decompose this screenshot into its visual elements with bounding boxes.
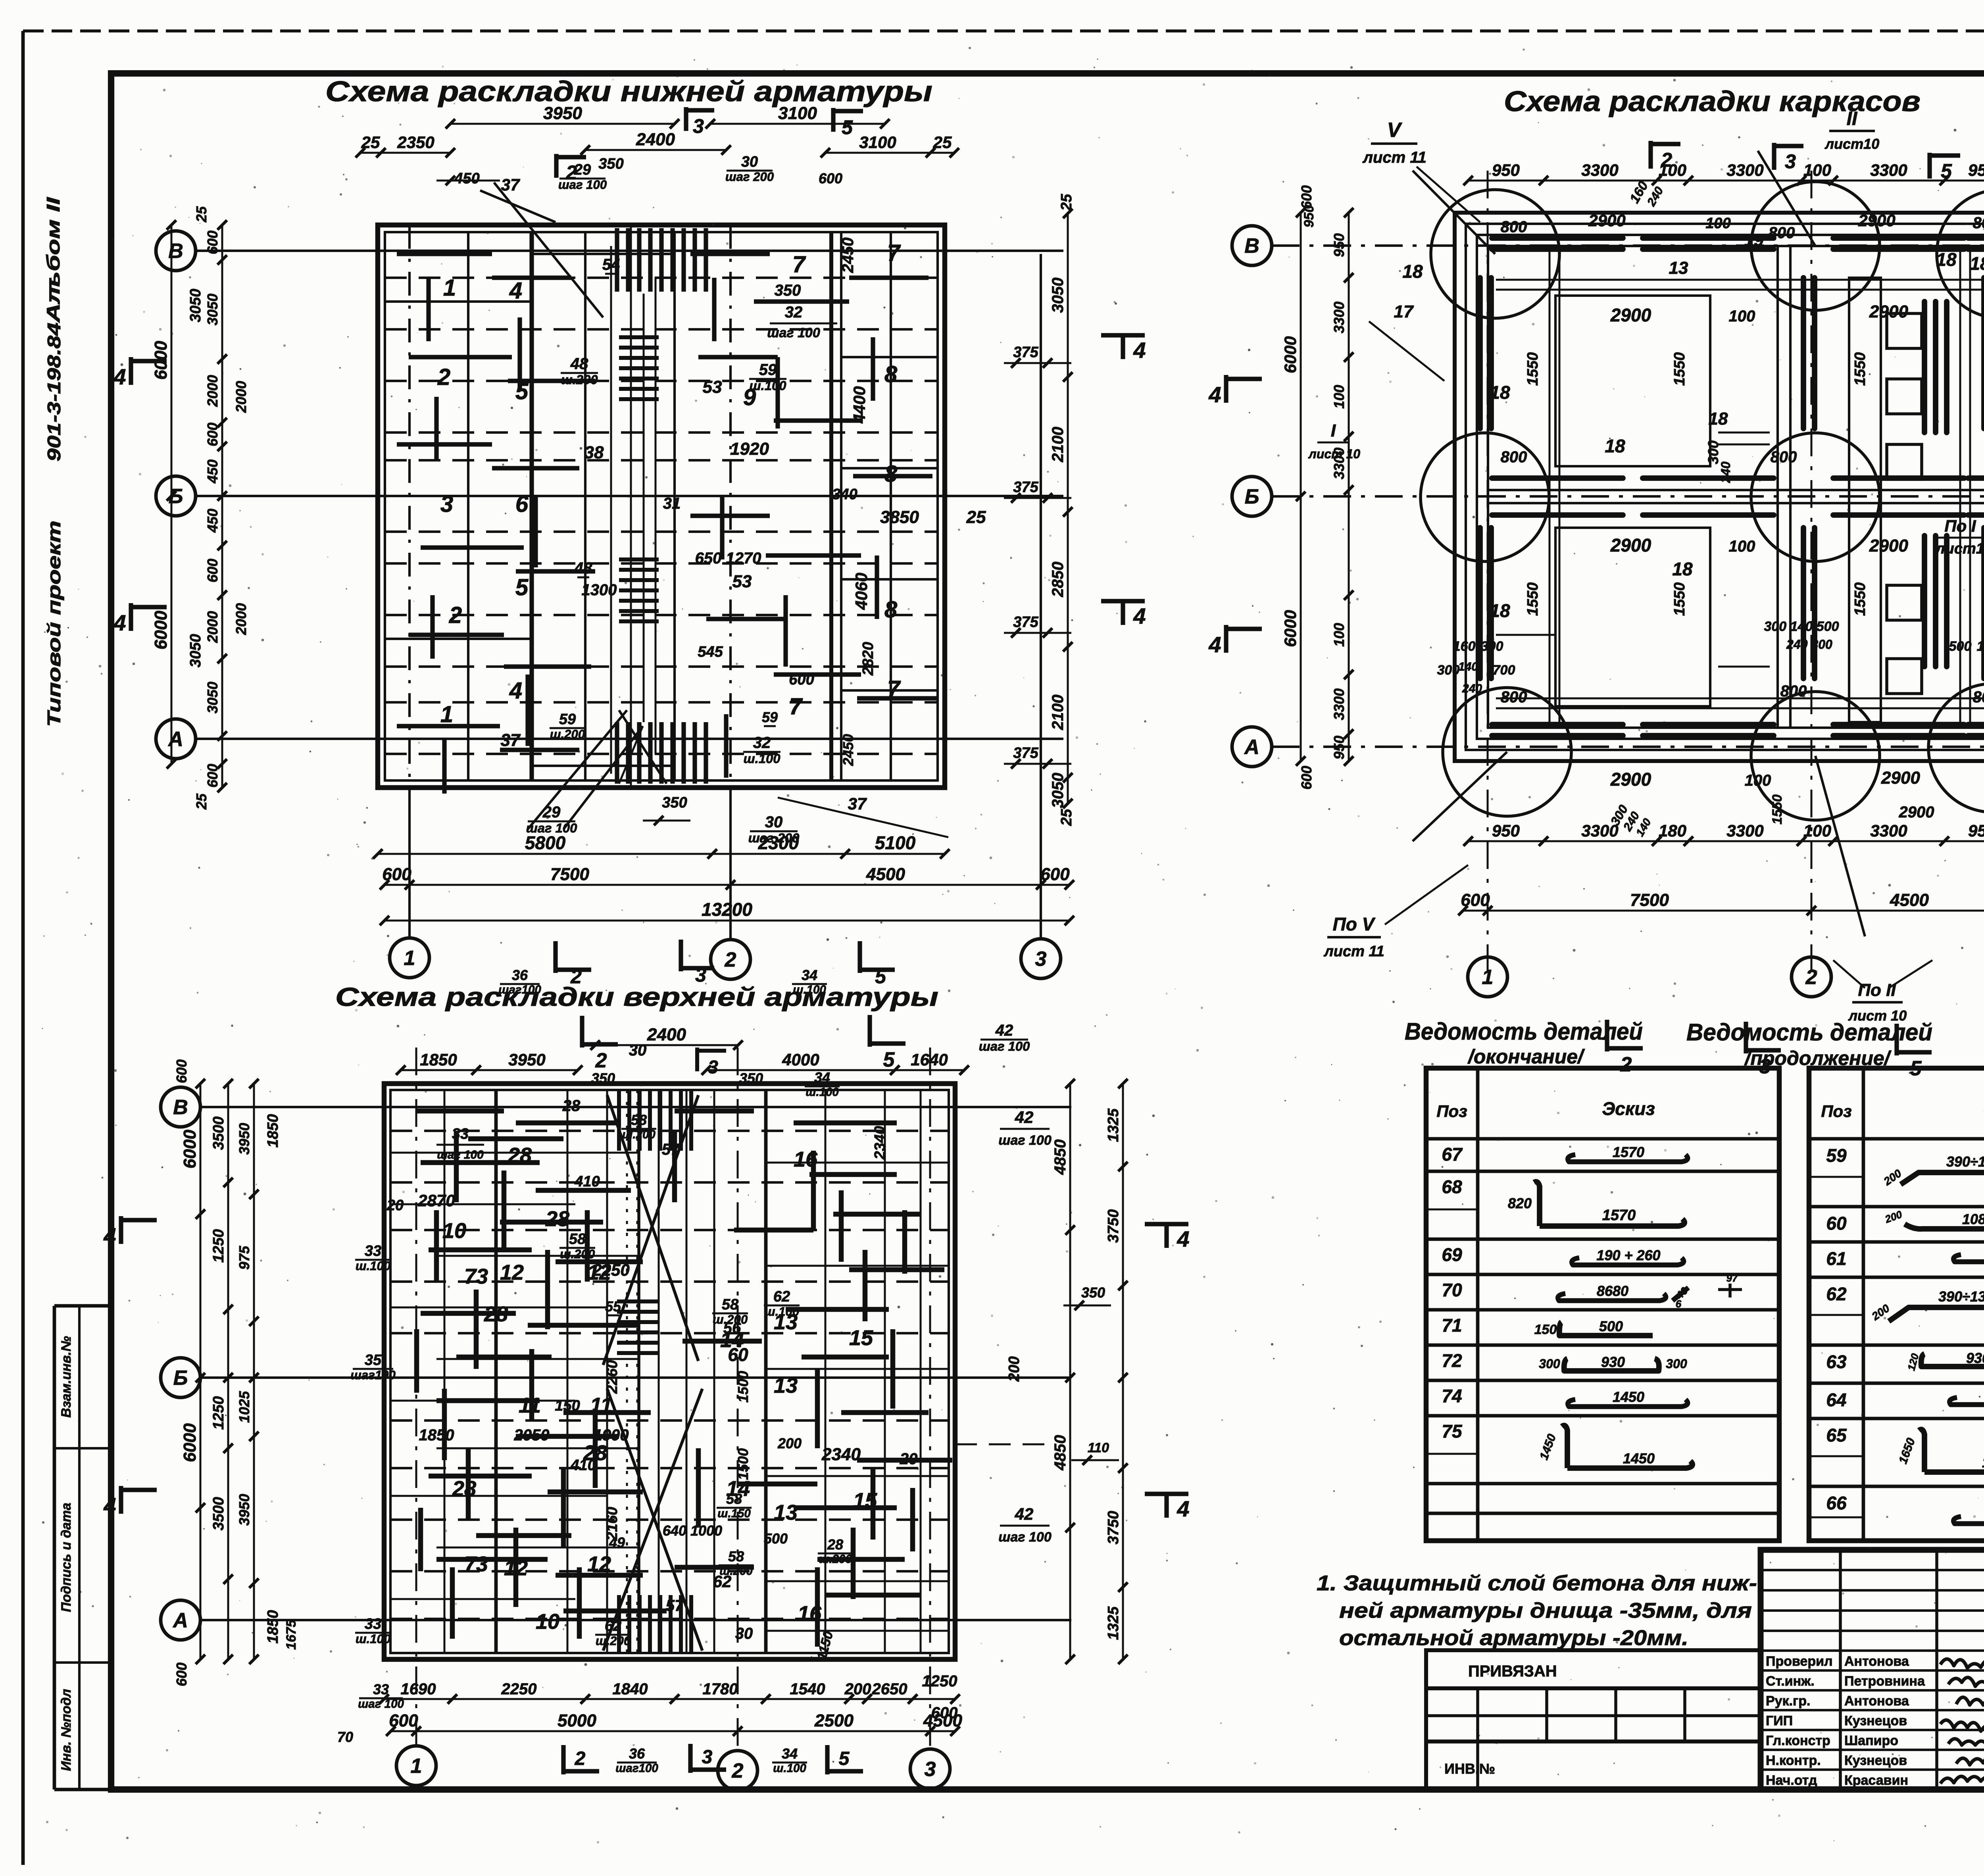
svg-text:2000: 2000	[233, 381, 249, 413]
svg-text:1450: 1450	[1623, 1450, 1655, 1467]
svg-text:600: 600	[1040, 865, 1070, 884]
svg-text:16: 16	[794, 1148, 818, 1171]
svg-text:шаг 200: шаг 200	[725, 170, 774, 184]
svg-text:2400: 2400	[636, 130, 675, 149]
svg-text:ГИП: ГИП	[1766, 1713, 1793, 1728]
svg-text:200: 200	[1006, 1356, 1023, 1382]
svg-text:шаг100: шаг100	[498, 983, 541, 996]
svg-text:2350: 2350	[397, 133, 434, 152]
svg-text:18: 18	[1709, 409, 1728, 429]
svg-text:шаг100: шаг100	[615, 1762, 658, 1775]
svg-text:2650: 2650	[872, 1680, 907, 1698]
svg-text:1900: 1900	[594, 1426, 629, 1444]
svg-text:19: 19	[1744, 231, 1764, 250]
svg-text:2500: 2500	[814, 1711, 854, 1730]
svg-text:Схема раскладки каркасов: Схема раскладки каркасов	[1504, 86, 1921, 117]
svg-text:500: 500	[1949, 639, 1972, 654]
svg-text:2260: 2260	[604, 1360, 621, 1394]
svg-text:лист 11: лист 11	[1323, 943, 1384, 960]
svg-text:58: 58	[722, 1296, 739, 1313]
svg-text:В: В	[173, 1096, 188, 1119]
svg-text:59: 59	[762, 709, 778, 725]
svg-text:ш.200: ш.200	[819, 1553, 852, 1566]
svg-text:600: 600	[204, 423, 221, 446]
svg-text:240 300: 240 300	[1786, 637, 1832, 652]
svg-text:800: 800	[1973, 688, 1984, 706]
svg-text:ней арматуры днища -35мм, для: ней арматуры днища -35мм, для	[1339, 1599, 1752, 1622]
svg-text:2450: 2450	[840, 734, 856, 766]
svg-text:1650: 1650	[1982, 1454, 1984, 1470]
svg-text:ш.100: ш.100	[356, 1632, 391, 1646]
svg-text:20: 20	[900, 1450, 918, 1468]
svg-text:1550: 1550	[1671, 582, 1688, 616]
svg-text:500: 500	[764, 1530, 788, 1547]
svg-text:375: 375	[1013, 745, 1038, 761]
svg-text:3: 3	[925, 1758, 936, 1781]
svg-text:42: 42	[1015, 1108, 1034, 1126]
svg-text:640 1000: 640 1000	[663, 1522, 722, 1539]
svg-text:По II: По II	[1858, 980, 1896, 1000]
svg-text:лист10: лист10	[1824, 136, 1879, 152]
svg-text:3: 3	[708, 1057, 718, 1077]
svg-text:71: 71	[1442, 1315, 1462, 1336]
svg-text:5800: 5800	[525, 832, 566, 853]
svg-text:11: 11	[519, 1394, 541, 1417]
svg-text:700: 700	[1493, 663, 1515, 678]
svg-text:28: 28	[484, 1302, 508, 1326]
svg-text:Петровнина: Петровнина	[1844, 1674, 1925, 1689]
svg-text:ш.100: ш.100	[750, 378, 786, 393]
svg-text:12: 12	[587, 1552, 611, 1576]
svg-text:Ст.инж.: Ст.инж.	[1766, 1674, 1815, 1689]
svg-text:3750: 3750	[1105, 1511, 1122, 1545]
svg-text:66: 66	[1826, 1493, 1847, 1513]
svg-text:шаг 100: шаг 100	[998, 1133, 1052, 1148]
svg-text:ш.200: ш.200	[622, 1128, 656, 1141]
svg-text:1690: 1690	[401, 1680, 436, 1698]
svg-text:28: 28	[827, 1536, 843, 1553]
svg-text:62: 62	[605, 1618, 621, 1634]
svg-text:190 + 260: 190 + 260	[1596, 1247, 1660, 1263]
svg-text:58: 58	[631, 1112, 647, 1128]
svg-text:70: 70	[1442, 1280, 1462, 1300]
svg-text:5: 5	[839, 1748, 850, 1769]
svg-text:60: 60	[728, 1344, 748, 1365]
svg-text:1540: 1540	[790, 1680, 825, 1698]
svg-text:68: 68	[1442, 1176, 1462, 1197]
svg-text:25: 25	[966, 507, 986, 527]
svg-text:2900: 2900	[1610, 769, 1651, 790]
svg-text:62: 62	[713, 1572, 732, 1591]
svg-text:II: II	[1847, 108, 1858, 129]
svg-text:ш.200: ш.200	[561, 372, 598, 387]
svg-text:2: 2	[437, 364, 450, 390]
svg-text:30: 30	[629, 1042, 647, 1059]
svg-text:410: 410	[570, 1457, 596, 1474]
svg-text:62: 62	[773, 1288, 790, 1305]
svg-text:390÷1370: 390÷1370	[1946, 1153, 1984, 1170]
svg-text:28: 28	[508, 1144, 532, 1167]
svg-text:Красавин: Красавин	[1844, 1773, 1908, 1788]
svg-text:930: 930	[1966, 1350, 1984, 1366]
svg-text:ш.200: ш.200	[550, 727, 585, 741]
svg-text:950: 950	[1302, 205, 1317, 228]
svg-text:48: 48	[570, 355, 588, 373]
svg-text:Типовой проект: Типовой проект	[44, 521, 64, 727]
svg-text:36: 36	[512, 967, 528, 983]
svg-text:Подпись и дата: Подпись и дата	[59, 1503, 74, 1612]
svg-text:6: 6	[1676, 1298, 1682, 1310]
svg-text:ш.100: ш.100	[356, 1259, 391, 1273]
svg-text:3300: 3300	[1870, 821, 1907, 840]
svg-text:100: 100	[1705, 215, 1730, 232]
svg-text:110: 110	[1088, 1440, 1109, 1455]
svg-text:4: 4	[1177, 1496, 1189, 1521]
svg-text:1920: 1920	[730, 439, 769, 459]
svg-text:34: 34	[814, 1069, 830, 1086]
svg-text:800: 800	[1501, 448, 1527, 466]
svg-text:3300: 3300	[1581, 821, 1618, 840]
svg-text:59: 59	[759, 361, 777, 379]
svg-text:1250: 1250	[210, 1229, 227, 1263]
svg-text:950: 950	[1331, 233, 1347, 257]
svg-text:1325: 1325	[1105, 1606, 1122, 1640]
svg-text:6000: 6000	[180, 1423, 200, 1462]
svg-text:53: 53	[732, 572, 752, 591]
svg-text:11: 11	[590, 1394, 612, 1417]
svg-text:2: 2	[1805, 966, 1817, 989]
svg-text:Шапиро: Шапиро	[1844, 1733, 1898, 1748]
svg-text:2900: 2900	[1858, 211, 1895, 230]
svg-text:1300: 1300	[582, 581, 617, 599]
svg-text:5: 5	[515, 575, 529, 600]
svg-text:1080: 1080	[1962, 1211, 1984, 1227]
svg-text:3300: 3300	[1331, 302, 1347, 333]
svg-text:300: 300	[1539, 1357, 1560, 1371]
svg-text:ш.200: ш.200	[560, 1247, 595, 1261]
svg-text:350: 350	[1081, 1284, 1105, 1301]
svg-text:600: 600	[382, 865, 411, 884]
svg-text:3500: 3500	[210, 1117, 227, 1150]
svg-text:950: 950	[1492, 821, 1520, 840]
svg-text:600: 600	[173, 1059, 190, 1083]
svg-text:2: 2	[1661, 149, 1672, 171]
svg-text:33: 33	[365, 1616, 381, 1632]
svg-text:5: 5	[842, 116, 853, 138]
svg-text:13: 13	[1669, 258, 1688, 278]
svg-text:1: 1	[443, 275, 456, 301]
svg-text:шаг 100: шаг 100	[998, 1530, 1052, 1545]
svg-text:29: 29	[542, 803, 561, 821]
svg-text:Схема раскладки верхней армату: Схема раскладки верхней арматуры	[335, 982, 938, 1011]
svg-text:300: 300	[1481, 639, 1503, 654]
svg-text:901-3-198.84: 901-3-198.84	[44, 323, 64, 461]
svg-text:2: 2	[565, 161, 577, 184]
svg-text:69: 69	[1442, 1244, 1462, 1265]
svg-text:58: 58	[726, 1491, 742, 1507]
svg-text:340: 340	[832, 486, 857, 503]
svg-text:4: 4	[1208, 382, 1221, 407]
svg-text:3300: 3300	[1870, 161, 1907, 179]
svg-text:4: 4	[1208, 632, 1221, 657]
svg-text:28: 28	[452, 1477, 476, 1501]
svg-text:2870: 2870	[417, 1191, 455, 1210]
svg-text:600: 600	[173, 1663, 190, 1686]
svg-text:3750: 3750	[1105, 1209, 1122, 1243]
svg-text:6000: 6000	[180, 1130, 200, 1169]
svg-text:Эскиз: Эскиз	[1602, 1098, 1655, 1119]
svg-text:25: 25	[193, 206, 210, 223]
svg-text:800: 800	[1769, 224, 1795, 242]
svg-text:18: 18	[1490, 600, 1510, 621]
svg-text:4: 4	[1177, 1226, 1189, 1251]
svg-text:6000: 6000	[151, 611, 171, 650]
svg-text:55: 55	[605, 1298, 621, 1315]
svg-text:Кузнецов: Кузнецов	[1844, 1753, 1907, 1768]
svg-text:3850: 3850	[880, 507, 919, 527]
svg-text:350: 350	[662, 794, 687, 811]
svg-text:2900: 2900	[1588, 211, 1625, 230]
svg-text:4: 4	[1133, 604, 1146, 629]
svg-text:37: 37	[501, 730, 521, 750]
svg-text:70: 70	[337, 1729, 353, 1745]
svg-text:1325: 1325	[1105, 1108, 1122, 1142]
svg-text:930: 930	[1601, 1354, 1625, 1370]
svg-text:1570: 1570	[1613, 1144, 1644, 1160]
svg-text:100: 100	[1803, 821, 1831, 840]
svg-text:остальной арматуры -20мм.: остальной арматуры -20мм.	[1339, 1626, 1688, 1650]
svg-text:1250: 1250	[210, 1396, 227, 1430]
svg-text:150: 150	[1534, 1322, 1557, 1337]
svg-text:3050: 3050	[187, 634, 204, 668]
svg-text:17: 17	[1394, 302, 1414, 321]
svg-text:10: 10	[536, 1610, 559, 1634]
svg-text:1550: 1550	[1525, 352, 1541, 386]
svg-text:61: 61	[1826, 1248, 1846, 1269]
svg-text:4850: 4850	[1052, 1435, 1069, 1471]
svg-text:600: 600	[1461, 890, 1490, 910]
svg-text:лист10: лист10	[1935, 540, 1984, 557]
svg-text:12: 12	[500, 1261, 524, 1284]
svg-text:2900: 2900	[1869, 536, 1908, 555]
svg-text:4: 4	[113, 364, 126, 389]
svg-text:7: 7	[887, 240, 901, 266]
svg-text:Проверил: Проверил	[1766, 1654, 1833, 1669]
svg-text:100: 100	[1331, 385, 1347, 409]
svg-text:18: 18	[1605, 436, 1625, 456]
svg-text:А: А	[167, 728, 183, 751]
svg-text:2400: 2400	[647, 1025, 686, 1044]
svg-text:ш.100: ш.100	[806, 1086, 839, 1099]
svg-text:600: 600	[204, 764, 221, 788]
svg-text:1500: 1500	[735, 1448, 751, 1480]
svg-text:37: 37	[501, 175, 520, 194]
svg-text:2340: 2340	[872, 1126, 888, 1160]
svg-text:ш.100: ш.100	[744, 751, 781, 766]
svg-text:2000: 2000	[204, 611, 221, 643]
svg-text:А: А	[1244, 736, 1259, 759]
svg-text:В: В	[1244, 234, 1259, 258]
svg-text:По I: По I	[1944, 517, 1976, 535]
svg-text:300 140 500: 300 140 500	[1764, 619, 1839, 634]
svg-text:5: 5	[1941, 160, 1952, 182]
svg-text:950: 950	[1968, 821, 1984, 840]
svg-text:ИНВ.№: ИНВ.№	[1444, 1761, 1495, 1777]
svg-text:2050: 2050	[514, 1426, 550, 1444]
svg-text:1250: 1250	[922, 1672, 957, 1690]
svg-text:2850: 2850	[1049, 562, 1067, 598]
svg-text:3050: 3050	[1049, 278, 1067, 313]
svg-text:350: 350	[591, 1070, 615, 1086]
svg-text:72: 72	[1442, 1350, 1462, 1371]
svg-text:18: 18	[1672, 559, 1693, 579]
svg-text:375: 375	[1013, 479, 1038, 496]
svg-text:10: 10	[442, 1219, 466, 1243]
svg-text:3950: 3950	[236, 1494, 252, 1526]
svg-text:63: 63	[1826, 1351, 1847, 1372]
svg-text:300: 300	[1437, 663, 1460, 678]
svg-text:13: 13	[774, 1501, 798, 1524]
svg-text:32: 32	[753, 734, 771, 752]
svg-text:950: 950	[1331, 736, 1347, 759]
svg-text:54: 54	[602, 256, 620, 273]
svg-text:600: 600	[931, 1704, 958, 1722]
svg-text:97: 97	[1726, 1272, 1738, 1284]
svg-text:ш.200: ш.200	[596, 1634, 631, 1648]
svg-text:2: 2	[725, 948, 736, 971]
svg-text:300: 300	[1705, 440, 1721, 464]
svg-text:Поз: Поз	[1821, 1102, 1851, 1121]
svg-text:2250: 2250	[501, 1680, 537, 1698]
svg-text:57: 57	[666, 1597, 684, 1615]
svg-text:8: 8	[884, 461, 898, 487]
svg-text:4000: 4000	[782, 1050, 819, 1069]
svg-text:30: 30	[741, 154, 758, 170]
svg-text:59: 59	[1826, 1145, 1847, 1166]
svg-text:67: 67	[1442, 1144, 1463, 1165]
svg-text:240: 240	[1462, 682, 1482, 695]
svg-text:100: 100	[1729, 538, 1755, 555]
svg-text:5000: 5000	[558, 1711, 596, 1730]
svg-text:3300: 3300	[1726, 161, 1763, 179]
svg-text:28: 28	[562, 1097, 581, 1115]
svg-text:I: I	[1331, 421, 1336, 440]
svg-text:шаг 100: шаг 100	[767, 325, 820, 340]
svg-text:30: 30	[765, 813, 783, 831]
svg-text:1: 1	[1482, 966, 1494, 989]
svg-text:2340: 2340	[821, 1445, 861, 1464]
svg-text:64: 64	[1826, 1390, 1846, 1410]
svg-text:ш.100: ш.100	[773, 1762, 806, 1775]
svg-text:1640: 1640	[911, 1050, 948, 1069]
svg-text:3050: 3050	[204, 294, 221, 325]
svg-text:820: 820	[1508, 1195, 1532, 1211]
svg-text:20: 20	[386, 1197, 404, 1214]
svg-text:600: 600	[789, 671, 814, 688]
svg-text:4: 4	[103, 1493, 116, 1518]
svg-text:Альбом II: Альбом II	[43, 197, 63, 323]
svg-text:4: 4	[113, 610, 126, 635]
svg-text:25: 25	[361, 133, 380, 152]
svg-text:28: 28	[545, 1207, 569, 1231]
svg-text:4: 4	[1133, 338, 1146, 363]
svg-text:1550: 1550	[1525, 582, 1541, 616]
svg-text:2900: 2900	[1610, 535, 1651, 555]
svg-text:V: V	[1387, 119, 1403, 142]
svg-text:4500: 4500	[1890, 890, 1929, 910]
svg-text:По V: По V	[1333, 914, 1376, 934]
svg-text:73: 73	[464, 1265, 488, 1288]
svg-text:7: 7	[887, 676, 901, 702]
svg-text:1. Защитный слой бетона для ни: 1. Защитный слой бетона для ниж-	[1317, 1571, 1757, 1595]
svg-text:1850: 1850	[265, 1114, 281, 1148]
svg-text:3: 3	[693, 115, 704, 137]
svg-text:Взам.инв.№: Взам.инв.№	[59, 1336, 74, 1418]
svg-text:1: 1	[440, 702, 453, 727]
svg-text:18: 18	[1936, 249, 1957, 270]
svg-text:600: 600	[204, 559, 221, 582]
svg-text:4: 4	[103, 1223, 116, 1248]
svg-text:37: 37	[848, 794, 867, 813]
svg-text:31: 31	[663, 495, 681, 512]
svg-text:1570: 1570	[1602, 1207, 1636, 1224]
svg-text:34: 34	[802, 967, 817, 983]
svg-text:3050: 3050	[204, 682, 221, 713]
svg-text:975: 975	[236, 1246, 252, 1270]
svg-text:3100: 3100	[859, 133, 896, 152]
svg-text:240: 240	[1719, 461, 1733, 483]
svg-text:450: 450	[204, 509, 221, 533]
svg-text:2: 2	[449, 602, 462, 628]
svg-text:Ведомость деталей: Ведомость деталей	[1686, 1019, 1932, 1046]
svg-text:42: 42	[995, 1022, 1013, 1039]
svg-text:15: 15	[849, 1326, 873, 1350]
svg-text:5: 5	[883, 1048, 895, 1071]
svg-text:2000: 2000	[204, 375, 221, 407]
svg-text:13: 13	[774, 1374, 798, 1397]
svg-text:75: 75	[1442, 1421, 1463, 1442]
svg-text:350: 350	[598, 156, 623, 172]
svg-text:34: 34	[782, 1745, 798, 1762]
svg-text:Б: Б	[173, 1367, 188, 1390]
svg-text:100: 100	[1729, 308, 1755, 325]
svg-text:2: 2	[575, 1748, 586, 1769]
svg-text:2250: 2250	[592, 1261, 629, 1279]
svg-text:3: 3	[1035, 948, 1047, 971]
svg-text:35: 35	[365, 1352, 382, 1369]
svg-text:140: 140	[1458, 660, 1478, 673]
svg-text:1840: 1840	[613, 1680, 648, 1698]
svg-text:4500: 4500	[866, 865, 905, 884]
svg-text:1450: 1450	[1613, 1389, 1644, 1405]
svg-text:950: 950	[1968, 161, 1984, 179]
svg-text:73: 73	[464, 1552, 488, 1576]
svg-text:800: 800	[1501, 688, 1527, 706]
svg-text:7: 7	[789, 694, 803, 719]
svg-text:3300: 3300	[1726, 821, 1763, 840]
svg-text:4: 4	[509, 278, 522, 304]
svg-text:18: 18	[1490, 382, 1510, 403]
svg-text:600: 600	[1298, 766, 1315, 790]
svg-text:Б: Б	[1245, 485, 1259, 508]
svg-text:лист 10: лист 10	[1308, 447, 1360, 461]
svg-text:350: 350	[739, 1070, 763, 1086]
svg-text:1850: 1850	[419, 1426, 454, 1444]
svg-text:33: 33	[365, 1243, 381, 1259]
svg-text:450: 450	[454, 170, 479, 187]
svg-text:1675: 1675	[284, 1619, 299, 1650]
svg-text:5: 5	[515, 379, 529, 404]
